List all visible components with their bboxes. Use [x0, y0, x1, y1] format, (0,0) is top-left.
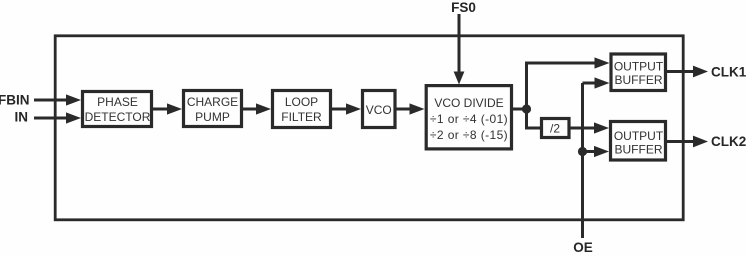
- svg-text:PHASE: PHASE: [97, 95, 138, 109]
- svg-text:CLK1: CLK1: [711, 65, 746, 80]
- wire VCO to VCO divide: [396, 103, 425, 114]
- wire divide-by-2 to CLK2 buffer input: [570, 122, 609, 133]
- wire IN input: [34, 112, 81, 123]
- block OUTPUT BUFFER top: [611, 54, 666, 91]
- svg-text:PUMP: PUMP: [195, 110, 230, 124]
- wire OE to top output buffer: [583, 77, 610, 88]
- wire junction up to CLK1 buffer input: [527, 57, 610, 109]
- wire phase detector to charge pump: [153, 103, 182, 114]
- wire CLK1 output: [666, 66, 708, 78]
- wire loop filter to VCO: [332, 103, 361, 114]
- wire FS0 input: [454, 14, 465, 85]
- svg-text:CHARGE: CHARGE: [187, 95, 238, 109]
- svg-text:/2: /2: [550, 121, 560, 135]
- svg-text:LOOP: LOOP: [285, 95, 318, 109]
- wire CLK2 output: [666, 136, 708, 148]
- block PHASE DETECTOR: [83, 92, 152, 127]
- block CHARGE PUMP: [184, 91, 242, 127]
- svg-text:VCO: VCO: [366, 103, 392, 117]
- svg-text:BUFFER: BUFFER: [615, 73, 663, 87]
- svg-text:DETECTOR: DETECTOR: [85, 110, 151, 124]
- svg-text:IN: IN: [15, 110, 29, 125]
- svg-text:FS0: FS0: [451, 0, 476, 15]
- wire FBIN input: [34, 94, 81, 105]
- svg-text:BUFFER: BUFFER: [615, 143, 663, 157]
- junction node OE branch: [578, 147, 587, 156]
- wire VCO divide output to junction: [513, 108, 527, 111]
- outer boundary box: [55, 36, 683, 220]
- block VCO DIVIDE: [426, 86, 511, 149]
- svg-text:÷2 or ÷8 (-15): ÷2 or ÷8 (-15): [430, 128, 508, 142]
- svg-text:FILTER: FILTER: [281, 110, 322, 124]
- svg-text:OUTPUT: OUTPUT: [614, 129, 664, 143]
- block divide-by-2: [542, 119, 570, 138]
- block LOOP FILTER: [273, 91, 331, 128]
- wire OE input vertical: [581, 83, 584, 238]
- svg-text:CLK2: CLK2: [711, 134, 746, 149]
- junction node divider output: [522, 104, 531, 113]
- wire junction down to divide-by-2: [527, 109, 541, 128]
- block VCO: [363, 91, 396, 128]
- svg-text:÷1 or ÷4 (-01): ÷1 or ÷4 (-01): [430, 112, 508, 126]
- wire OE to bottom output buffer: [583, 146, 610, 157]
- block OUTPUT BUFFER bottom: [611, 122, 666, 161]
- svg-text:OE: OE: [573, 240, 593, 255]
- wire charge pump to loop filter: [243, 103, 271, 114]
- svg-text:FBIN: FBIN: [0, 93, 30, 108]
- svg-text:OUTPUT: OUTPUT: [614, 60, 664, 74]
- svg-text:VCO DIVIDE: VCO DIVIDE: [434, 96, 503, 110]
